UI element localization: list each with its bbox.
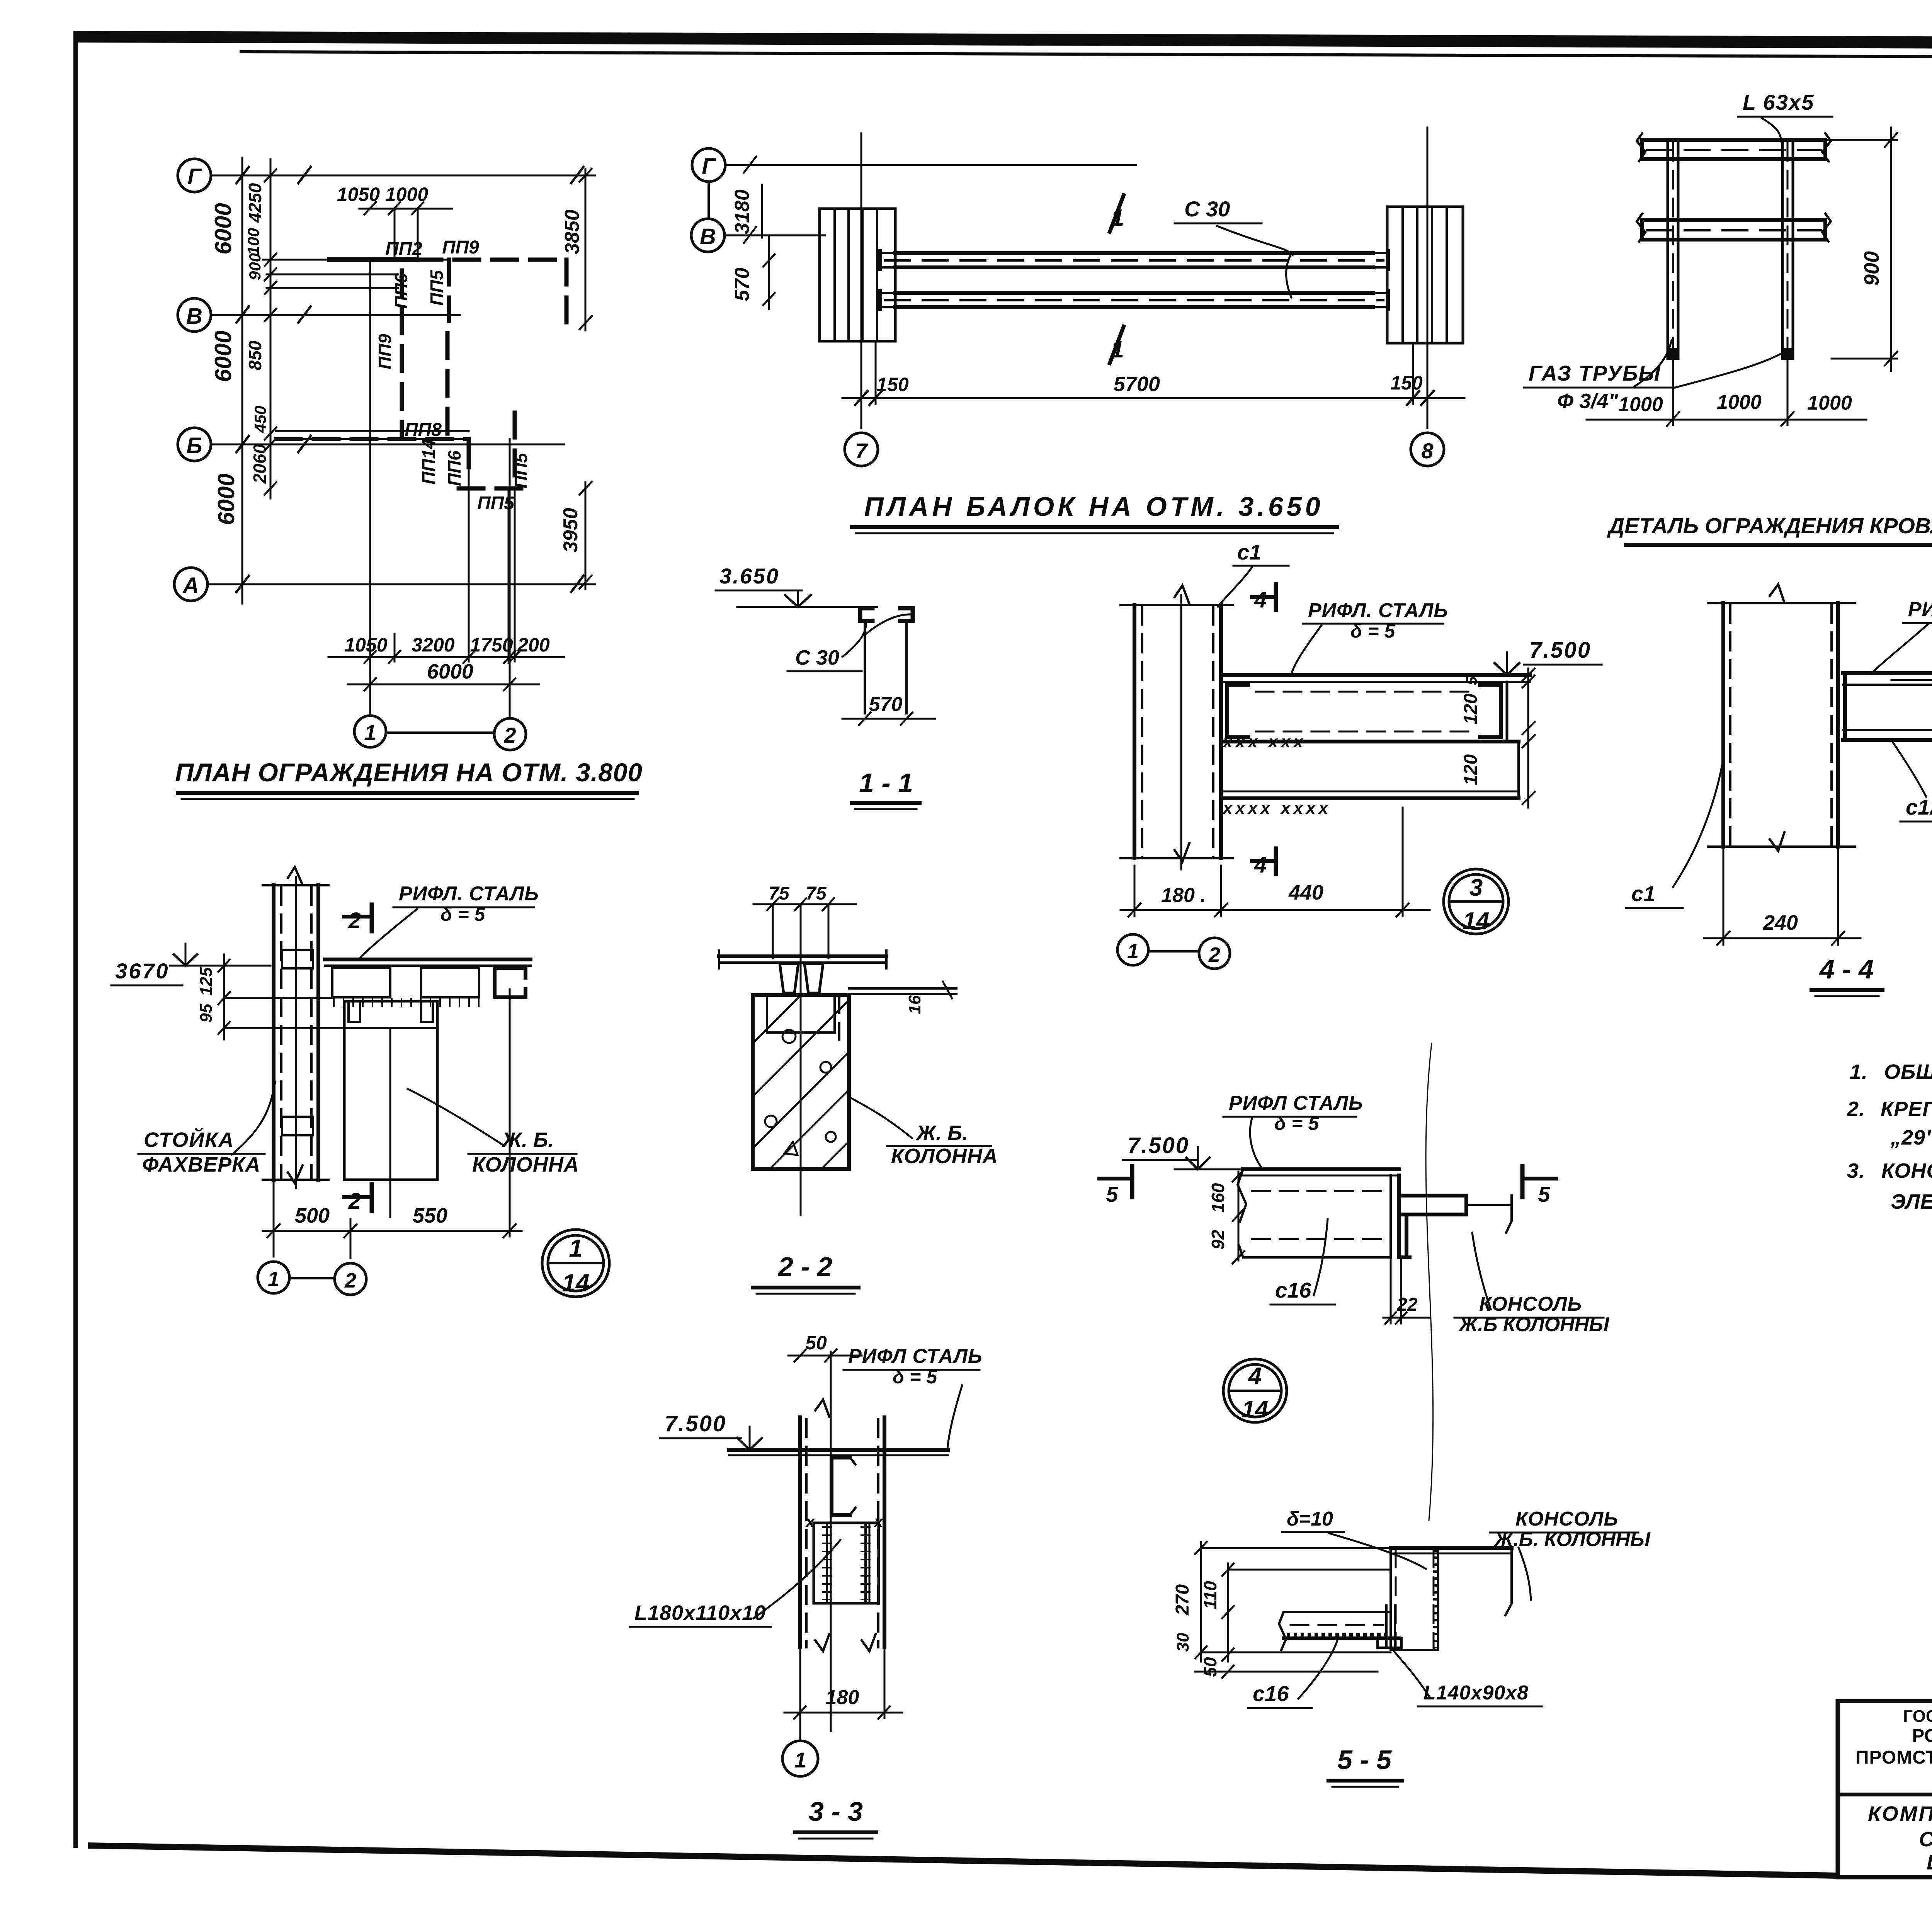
- svg-text:x: x: [873, 1512, 884, 1531]
- svg-text:3670: 3670: [115, 959, 170, 983]
- label с1 4-4: [1626, 754, 1724, 908]
- svg-text:900: 900: [246, 253, 264, 280]
- left column block: [820, 209, 895, 341]
- axis circle 1 node1: [258, 1262, 289, 1293]
- svg-text:КОЛОННА: КОЛОННА: [891, 1145, 998, 1168]
- svg-text:А: А: [182, 573, 199, 598]
- plan thin guide lines: [263, 260, 469, 439]
- svg-text:ПП14: ПП14: [418, 439, 439, 484]
- svg-text:В: В: [700, 224, 716, 249]
- svg-text:50: 50: [805, 1332, 827, 1354]
- column 4-4: [1708, 584, 1855, 851]
- right lines dim16: [849, 981, 956, 1014]
- svg-text:2: 2: [348, 908, 361, 933]
- svg-text:1: 1: [364, 720, 376, 745]
- axis circle Б: [178, 428, 211, 461]
- dim 570 section: [842, 693, 935, 725]
- svg-text:1000: 1000: [1618, 393, 1663, 416]
- svg-text:1: 1: [268, 1267, 279, 1291]
- dim 500 550: [263, 989, 522, 1258]
- svg-text:РИФЛ. СТАЛЬ: РИФЛ. СТАЛЬ: [399, 883, 539, 905]
- label РИФЛ СТАЛЬ 4-4: [1871, 598, 1932, 674]
- svg-text:7: 7: [855, 439, 868, 463]
- axis circle 2: [494, 718, 526, 750]
- svg-text:3 - 3: 3 - 3: [809, 1796, 863, 1827]
- org name: [1855, 1706, 1932, 1788]
- svg-text:440: 440: [1288, 881, 1323, 904]
- label КОНСОЛЬ node4: [1454, 1233, 1609, 1336]
- svg-text:3850: 3850: [561, 209, 583, 254]
- node3 column: [1121, 585, 1233, 869]
- brackets 2-2: [780, 964, 823, 993]
- label СТОЙКА ФАХВЕРКА: [138, 1082, 275, 1176]
- svg-text:ПП5: ПП5: [511, 452, 531, 488]
- bolt block 3-3: [805, 1512, 884, 1603]
- level 7.500 3-3: [660, 1411, 800, 1450]
- node3 bottom dims: [1121, 808, 1430, 917]
- svg-text:ДЕТАЛЬ ОГРАЖДЕНИЯ КРОВЛИ: ДЕТАЛЬ ОГРАЖДЕНИЯ КРОВЛИ: [1607, 514, 1932, 538]
- node circle 4/14: [1223, 1359, 1287, 1423]
- svg-text:160: 160: [1208, 1183, 1228, 1213]
- label С16 5-5: [1248, 1639, 1338, 1708]
- svg-text:РИФЛ СТАЛЬ: РИФЛ СТАЛЬ: [1229, 1092, 1363, 1114]
- svg-text:3. КОНСТРУКЦИИ СВАРНЫЕ. СВА: 3. КОНСТРУКЦИИ СВАРНЫЕ. СВАРКУ ПРОИЗВОДИ…: [1847, 1159, 1932, 1182]
- svg-text:8: 8: [1421, 439, 1434, 463]
- dim line row1: [328, 651, 564, 663]
- svg-text:6000: 6000: [213, 473, 239, 525]
- svg-text:1: 1: [794, 1748, 806, 1772]
- axis line В: [211, 314, 460, 316]
- beam plan dim ticks: [855, 391, 1434, 405]
- label КОНСОЛЬ 5-5: [1490, 1508, 1651, 1600]
- svg-text:7.500: 7.500: [665, 1411, 726, 1436]
- dim line 6000 outer: [241, 158, 243, 604]
- svg-text:500: 500: [295, 1204, 330, 1227]
- railing ПП5 lower: [459, 486, 531, 491]
- level mark 3.650: [716, 564, 877, 607]
- svg-text:850: 850: [245, 340, 265, 370]
- rail 1: [1637, 133, 1831, 161]
- svg-text:2 - 2: 2 - 2: [777, 1252, 832, 1282]
- dims 160 92 node4: [1208, 1169, 1244, 1264]
- railing ПП5 upper vertical: [447, 260, 451, 321]
- svg-text:3950: 3950: [560, 508, 582, 553]
- svg-text:240: 240: [1763, 911, 1798, 934]
- anchor pocket 2-2: [767, 995, 839, 1039]
- console top 5-5: [1391, 1548, 1512, 1615]
- node1 beam cut left: [332, 968, 390, 997]
- dim 900: [1825, 128, 1897, 371]
- node1 channel right: [495, 968, 526, 997]
- svg-text:200: 200: [517, 634, 550, 656]
- railing ПП5 right vertical: [513, 413, 517, 488]
- svg-text:ПРОМСТРОЙНИИПРОЕКТ: ПРОМСТРОЙНИИПРОЕКТ: [1855, 1747, 1932, 1768]
- svg-text:2. КРЕПЛЕНИЕ ОГРАЖДЕНИЯ ВЫП: 2. КРЕПЛЕНИЕ ОГРАЖДЕНИЯ ВЫПОЛНИТЬ ПО УЗЛ…: [1847, 1097, 1932, 1121]
- svg-text:КОНСОЛЬ: КОНСОЛЬ: [1479, 1293, 1582, 1315]
- angle L140x90x8 node4: [1399, 1175, 1512, 1257]
- svg-text:Г: Г: [187, 164, 202, 189]
- concrete column node1: [344, 1001, 437, 1180]
- sheet top border second line: [240, 50, 1932, 60]
- axis line А: [207, 583, 595, 585]
- svg-text:2: 2: [344, 1269, 356, 1292]
- axis circle 8: [1411, 433, 1444, 466]
- left column centerline: [861, 133, 862, 428]
- axis circle 1: [354, 716, 386, 747]
- axis Г ticks: [236, 167, 583, 183]
- axis line В beam plan: [724, 227, 825, 243]
- svg-text:Б: Б: [186, 433, 202, 458]
- svg-text:3200: 3200: [412, 634, 454, 656]
- svg-text:x: x: [805, 1512, 815, 1531]
- svg-text:РОСТОВСКИЙ: РОСТОВСКИЙ: [1912, 1725, 1932, 1746]
- svg-text:3.650: 3.650: [719, 564, 779, 588]
- level 7.500 node3: [1457, 638, 1602, 675]
- fachwerk girt stubs: [282, 950, 313, 1135]
- section mark 4 top: [1252, 584, 1276, 612]
- svg-text:СТОЙКА: СТОЙКА: [144, 1128, 234, 1152]
- svg-text:14: 14: [1242, 1396, 1269, 1423]
- svg-text:7.500: 7.500: [1529, 638, 1591, 663]
- node3 beam 2: [1221, 742, 1519, 798]
- svg-text:Г: Г: [702, 154, 716, 179]
- svg-text:δ=10: δ=10: [1287, 1508, 1333, 1530]
- svg-text:180: 180: [826, 1686, 859, 1709]
- concrete column 2-2: [753, 995, 849, 1169]
- guides to dim: [876, 341, 1413, 404]
- svg-text:270: 270: [1172, 1584, 1193, 1616]
- label ГАЗ ТРУБЫ: [1524, 340, 1786, 413]
- section mark 2 bottom: [344, 1184, 372, 1214]
- axis Б ticks: [236, 436, 311, 452]
- svg-text:6000: 6000: [427, 660, 473, 683]
- svg-text:2060: 2060: [250, 444, 270, 484]
- svg-text:КОЛОННА: КОЛОННА: [472, 1153, 579, 1176]
- dim 240 4-4: [1704, 847, 1861, 945]
- axis line Г: [211, 175, 595, 177]
- dim 180 3-3: [784, 1647, 902, 1719]
- svg-text:125: 125: [197, 967, 216, 996]
- svg-text:30: 30: [1173, 1633, 1192, 1652]
- svg-text:120: 120: [1461, 694, 1481, 725]
- channel 3-3: [832, 1458, 855, 1515]
- post 2: [1782, 140, 1793, 359]
- label L63x5: [1738, 90, 1832, 141]
- centerline 2-2: [800, 958, 802, 1215]
- svg-text:с1: с1: [1237, 540, 1261, 564]
- svg-text:L140x90x8: L140x90x8: [1423, 1682, 1529, 1704]
- object name: [1868, 1802, 1932, 1874]
- inner stack ticks: [265, 169, 276, 495]
- svg-text:50: 50: [1200, 1657, 1220, 1677]
- fachwerk post: [263, 867, 328, 1188]
- svg-text:с16: с16: [1253, 1681, 1289, 1706]
- dims 125 95: [197, 954, 344, 1039]
- svg-text:5700: 5700: [1114, 373, 1160, 396]
- svg-text:КОНСОЛЬ: КОНСОЛЬ: [1515, 1508, 1618, 1530]
- svg-text:100: 100: [244, 228, 262, 255]
- svg-text:4: 4: [1248, 1363, 1262, 1390]
- level 7.500 node4: [1123, 1133, 1244, 1169]
- connector Г-В: [707, 182, 710, 219]
- svg-text:150: 150: [876, 374, 909, 395]
- svg-text:РИФЛ СТАЛЬ: РИФЛ СТАЛЬ: [848, 1345, 983, 1368]
- dim line inner stack: [270, 159, 272, 498]
- svg-text:75: 75: [806, 883, 827, 904]
- section flag 1 bottom: [1110, 327, 1124, 363]
- axis circle 1 node3: [1117, 934, 1148, 965]
- svg-text:92: 92: [1208, 1230, 1228, 1250]
- axis line Г beam plan: [725, 156, 1136, 173]
- dim 3950: [580, 481, 592, 589]
- label С16 node4: [1270, 1219, 1335, 1305]
- svg-text:3180: 3180: [731, 189, 753, 234]
- plate 3-3: [729, 1450, 948, 1455]
- svg-text:4: 4: [1254, 587, 1267, 612]
- label РИФЛ СТАЛЬ 3-3: [844, 1345, 983, 1449]
- axis circle 7: [845, 433, 878, 466]
- svg-text:75: 75: [769, 883, 790, 904]
- svg-text:с16: с16: [1275, 1278, 1311, 1302]
- connector 1-2: [386, 731, 494, 734]
- node3 right dims: [1461, 668, 1535, 808]
- sheet left border: [73, 32, 78, 1848]
- svg-text:ПЛАН БАЛОК НА ОТМ. 3.650: ПЛАН БАЛОК НА ОТМ. 3.650: [864, 492, 1323, 522]
- label ЖБ КОЛОННА 2-2: [850, 1097, 998, 1168]
- section mark 4 bottom: [1252, 849, 1276, 878]
- svg-text:L180x110x10: L180x110x10: [634, 1601, 766, 1624]
- node1 beam cut right: [421, 968, 479, 997]
- svg-text:14: 14: [1463, 908, 1490, 934]
- axis circle В beam plan: [691, 219, 724, 252]
- svg-text:2: 2: [348, 1189, 361, 1214]
- title detail krovli: [1607, 514, 1932, 545]
- svg-text:1050: 1050: [344, 634, 387, 656]
- dim 22 node4: [1383, 1257, 1430, 1324]
- svg-text:Ф 3/4": Ф 3/4": [1557, 390, 1619, 413]
- svg-text:150: 150: [1390, 372, 1423, 394]
- svg-text:с12: с12: [1906, 795, 1932, 819]
- svg-text:4: 4: [1254, 852, 1267, 878]
- svg-text:ПП6: ПП6: [444, 451, 464, 486]
- sheet top border: [73, 31, 1932, 51]
- svg-text:95: 95: [197, 1004, 216, 1022]
- svg-text:ПП9: ПП9: [375, 334, 395, 369]
- railing ПП2 top: [330, 257, 417, 262]
- svg-text:L 63x5: L 63x5: [1743, 90, 1814, 114]
- svg-text:120: 120: [1461, 754, 1481, 785]
- svg-text:ПП8: ПП8: [405, 420, 442, 440]
- section mark 2 top: [344, 905, 372, 933]
- node3 channel beam: [1227, 682, 1507, 742]
- dims 270 110 30 50: [1172, 1542, 1391, 1678]
- level 7.500 4-4: [1891, 638, 1932, 680]
- svg-text:5: 5: [1463, 676, 1480, 685]
- sheet bottom border: [88, 1842, 1838, 1879]
- svg-text:4 - 4: 4 - 4: [1819, 954, 1874, 984]
- svg-text:570: 570: [869, 693, 903, 716]
- svg-text:ГОССТРОЙ СССР: ГОССТРОЙ СССР: [1903, 1706, 1932, 1726]
- svg-text:1050 1000: 1050 1000: [337, 184, 429, 205]
- svg-text:4250: 4250: [245, 183, 265, 223]
- svg-text:450: 450: [251, 406, 269, 433]
- dim line top small: [359, 202, 452, 214]
- axis circle Г: [178, 159, 211, 192]
- label С30 section: [787, 614, 910, 671]
- column centerline node1: [389, 1028, 391, 1217]
- railing ПП9 top dashed: [417, 258, 566, 262]
- svg-text:2: 2: [503, 723, 516, 747]
- label L140x90x8 5-5: [1392, 1648, 1542, 1706]
- node circle 1/14: [542, 1230, 609, 1297]
- svg-text:δ = 5: δ = 5: [1274, 1112, 1320, 1134]
- label С30: [1175, 197, 1293, 298]
- axis В ticks: [236, 306, 311, 323]
- node circle 3/14: [1444, 869, 1509, 934]
- svg-text:ЭЛЕКТРОДАМИ ТИПА Э42 ГОСТ 9: ЭЛЕКТРОДАМИ ТИПА Э42 ГОСТ 9467- 75.: [1891, 1190, 1932, 1213]
- label РИФЛ.СТАЛЬ node1: [359, 883, 539, 958]
- svg-text:900: 900: [1860, 251, 1883, 286]
- weld tick row: [333, 998, 481, 1007]
- svg-text:1. ОБЩИЕ ПРИМЕЧАНИЯ СМОТРИТ: 1. ОБЩИЕ ПРИМЕЧАНИЯ СМОТРИТЕ НА ЛИСТЕ КМ…: [1850, 1060, 1932, 1084]
- title block frame: [1838, 1701, 1932, 1877]
- plate 2-2: [719, 951, 886, 968]
- svg-text:5: 5: [1106, 1182, 1118, 1206]
- section mark 5 left: [1099, 1166, 1132, 1206]
- svg-text:1 - 1: 1 - 1: [859, 768, 913, 798]
- svg-text:В: В: [186, 304, 202, 329]
- connector node3 axes: [1148, 950, 1199, 953]
- axis circle 2 node3: [1199, 938, 1230, 969]
- svg-text:6000: 6000: [210, 330, 236, 382]
- plan column verticals: [370, 260, 515, 718]
- svg-text:550: 550: [413, 1204, 447, 1227]
- section verticals: [865, 621, 906, 713]
- dims 75 75: [753, 883, 856, 958]
- svg-text:570: 570: [731, 268, 753, 301]
- svg-text:С 30: С 30: [1184, 197, 1230, 221]
- svg-text:ПП9: ПП9: [442, 237, 479, 258]
- railing ПП14 vertical: [446, 333, 450, 439]
- label δ=10: [1282, 1043, 1433, 1569]
- dim 3850: [580, 168, 592, 330]
- railing ПП9 mid vertical: [400, 270, 404, 439]
- axis line Б: [211, 444, 564, 446]
- beam 2: [880, 291, 1388, 309]
- svg-text:РИФЛ СТАЛЬ: РИФЛ СТАЛЬ: [1908, 598, 1932, 621]
- svg-text:1000: 1000: [1807, 392, 1852, 414]
- svg-text:1: 1: [569, 1234, 583, 1262]
- svg-text:16: 16: [905, 995, 924, 1014]
- node1 floor plate: [325, 959, 531, 966]
- column 3-3: [800, 1400, 884, 1651]
- label РИФЛ.СТАЛЬ node3: [1291, 599, 1448, 674]
- svg-text:ПП6: ПП6: [391, 273, 411, 309]
- section flag 1 top: [1110, 195, 1124, 232]
- right column block: [1387, 207, 1463, 343]
- svg-text:xxxx xxxx: xxxx xxxx: [1222, 799, 1331, 818]
- svg-text:1: 1: [1127, 940, 1139, 963]
- beam 5-5: [1279, 1606, 1399, 1650]
- axis circle Г beam plan: [692, 148, 725, 182]
- svg-text:1000: 1000: [1717, 391, 1762, 413]
- svg-text:14: 14: [562, 1269, 589, 1297]
- svg-text:Ж. Б.: Ж. Б.: [915, 1121, 968, 1145]
- centerline 3-3: [830, 1352, 832, 1731]
- svg-text:СТАНЦИЯ: СТАНЦИЯ: [1919, 1828, 1932, 1851]
- label ЖБ КОЛОННА node1: [408, 1089, 579, 1176]
- title 1-1: [852, 768, 920, 809]
- column 5-5: [1391, 1548, 1438, 1650]
- axis circle 2 node1: [335, 1263, 366, 1295]
- svg-text:РИФЛ. СТАЛЬ: РИФЛ. СТАЛЬ: [1308, 599, 1448, 622]
- axis circle 1 3-3: [782, 1718, 818, 1776]
- node3 top plate: [1221, 673, 1530, 677]
- railing ПП8: [276, 437, 469, 441]
- axis circle А: [174, 568, 207, 601]
- railing right corner vertical: [565, 260, 569, 325]
- svg-text:„29" СЕРИИ 1.459-2 ВЫПУСК.1: „29" СЕРИИ 1.459-2 ВЫПУСК.1: [1890, 1126, 1932, 1149]
- axis circle В: [178, 298, 211, 332]
- connector node1 axes: [289, 1277, 335, 1279]
- title block left horizontal: [1838, 1793, 1932, 1796]
- dim line row2: [348, 678, 539, 691]
- label с1 node3: [1218, 540, 1289, 607]
- title 3-3: [795, 1796, 876, 1839]
- section mark 5 right: [1522, 1166, 1556, 1206]
- svg-text:3: 3: [1469, 874, 1483, 901]
- node4 beam: [1238, 1169, 1399, 1257]
- svg-text:5 - 5: 5 - 5: [1337, 1745, 1392, 1775]
- svg-text:ПЛАН ОГРАЖДЕНИЯ НА ОТМ. 3.800: ПЛАН ОГРАЖДЕНИЯ НА ОТМ. 3.800: [175, 758, 643, 787]
- svg-text:6000: 6000: [210, 203, 236, 254]
- angle 5-5: [1378, 1638, 1401, 1648]
- rail 2: [1637, 214, 1831, 242]
- label L180x110x10: [630, 1540, 840, 1627]
- svg-text:110: 110: [1200, 1581, 1220, 1609]
- right column centerline: [1427, 128, 1429, 428]
- guides top small dims: [395, 209, 418, 260]
- label РИФЛ СТАЛЬ node4: [1223, 1092, 1363, 1169]
- svg-text:КОМПРЕССОРНАЯ: КОМПРЕССОРНАЯ: [1868, 1802, 1932, 1825]
- svg-text:5: 5: [1538, 1182, 1550, 1206]
- beam 1: [880, 251, 1388, 269]
- title 4-4: [1811, 954, 1883, 996]
- svg-text:7.500: 7.500: [1128, 1133, 1189, 1158]
- beam plan dim line: [842, 397, 1464, 399]
- channel C30 pair section: [860, 608, 913, 621]
- svg-text:1750: 1750: [470, 634, 513, 656]
- railing ПП6 corner vertical: [467, 439, 471, 467]
- axis А ticks: [236, 576, 583, 592]
- svg-text:ПП5: ПП5: [427, 270, 447, 306]
- svg-text:2: 2: [1208, 943, 1220, 966]
- title 5-5: [1328, 1745, 1402, 1787]
- dim 50: [788, 1332, 862, 1362]
- beam 4-4: [1843, 673, 1932, 740]
- dims 1000x3: [1587, 359, 1866, 426]
- svg-text:ЦК-500А: ЦК-500А: [1927, 1851, 1932, 1874]
- svg-text:с1: с1: [1631, 881, 1655, 906]
- label С12: [1893, 742, 1932, 822]
- post 1: [1668, 140, 1678, 359]
- svg-text:С 30: С 30: [795, 646, 839, 669]
- svg-text:ФАХВЕРКА: ФАХВЕРКА: [142, 1153, 260, 1176]
- svg-text:180 .: 180 .: [1161, 884, 1206, 907]
- level 3670: [111, 944, 270, 985]
- title 2-2: [753, 1252, 859, 1294]
